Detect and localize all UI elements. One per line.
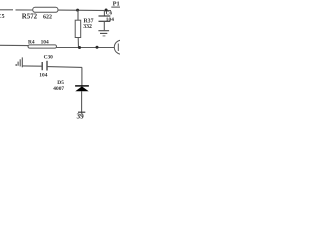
svg-text:P1: P1 — [113, 1, 120, 8]
junction dot — [78, 46, 81, 49]
svg-text:332: 332 — [83, 24, 92, 30]
wire — [57, 47, 115, 49]
wire — [16, 9, 34, 11]
svg-text:C30: C30 — [44, 55, 54, 61]
ground — [98, 31, 109, 36]
ground (sideways) — [15, 57, 22, 67]
svg-text:622: 622 — [43, 15, 52, 21]
terminal bar — [78, 111, 85, 113]
label P1 — [113, 1, 120, 8]
wire — [81, 67, 83, 85]
svg-text:39: 39 — [77, 113, 85, 120]
wire — [58, 9, 111, 12]
svg-text:104: 104 — [41, 39, 49, 45]
svg-text:C5: C5 — [0, 14, 5, 20]
wire P1 stub — [111, 6, 120, 8]
resistor R4 — [28, 39, 57, 48]
capacitor C30 — [39, 55, 53, 79]
svg-text:104: 104 — [106, 17, 114, 23]
wire — [48, 66, 83, 69]
diode D5 — [53, 80, 89, 92]
resistor R572 — [22, 7, 58, 20]
wire — [0, 44, 28, 46]
junction dot — [105, 9, 108, 12]
wire — [22, 65, 41, 67]
capacitor C6 — [99, 10, 115, 30]
junction dot — [76, 9, 79, 12]
net label 39 — [77, 113, 85, 121]
transistor P1 — [114, 40, 128, 54]
junction dot — [96, 46, 99, 49]
svg-text:R572: R572 — [22, 14, 38, 21]
svg-text:104: 104 — [39, 73, 47, 79]
svg-text:C6: C6 — [106, 11, 113, 17]
wire — [81, 91, 83, 113]
resistor R37 — [75, 10, 93, 48]
node C5 label — [0, 14, 5, 20]
svg-text:R4: R4 — [28, 39, 35, 45]
wire — [0, 9, 13, 11]
svg-text:4007: 4007 — [53, 86, 64, 92]
